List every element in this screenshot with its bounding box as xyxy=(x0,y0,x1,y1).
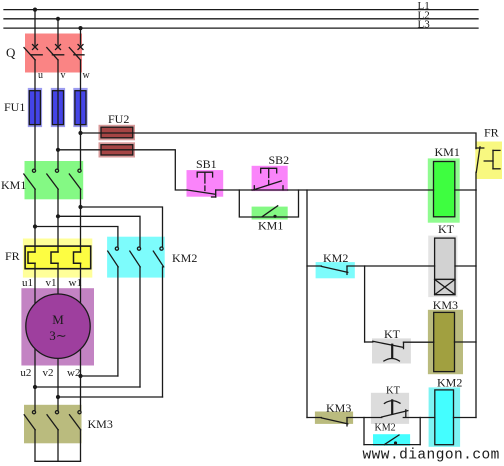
highlight: KM2 power contacts xyxy=(107,237,165,278)
node v to FU2 bottom xyxy=(56,148,60,152)
node u tap row xyxy=(33,224,37,228)
contactor KM1 pole 3 xyxy=(69,169,81,189)
FR heater element 2 xyxy=(51,252,58,263)
svg-text:L3: L3 xyxy=(418,19,431,31)
wire KM2 pole3 down to v2 row xyxy=(162,267,164,397)
contactor KM3 pole 3 xyxy=(70,411,82,430)
highlight: FR contact xyxy=(475,142,502,180)
svg-text:M: M xyxy=(52,312,64,327)
wire u tap to KM2 xyxy=(35,227,118,247)
switch Q pole 3 xyxy=(69,45,83,61)
node L2 tap xyxy=(56,17,60,21)
svg-text:v1: v1 xyxy=(46,277,57,289)
highlight: motor xyxy=(21,288,94,365)
highlight: KM1 coil xyxy=(428,158,460,222)
svg-text:w1: w1 xyxy=(69,277,82,289)
svg-text:KT: KT xyxy=(386,386,401,397)
wire KT NC to KM2 coil xyxy=(403,417,435,419)
wire right rail xyxy=(475,190,477,418)
pushbutton SB1 xyxy=(187,172,216,197)
wire row4 to parallel box xyxy=(347,417,382,419)
svg-text:FR: FR xyxy=(484,126,499,140)
highlight: KT coil xyxy=(428,236,457,298)
node L1 tap xyxy=(33,8,37,12)
contact KM2 NC xyxy=(307,266,348,274)
pushbutton SB2 xyxy=(252,168,288,190)
wire w tap to KM2 xyxy=(81,207,163,247)
wire parallel box bottom xyxy=(364,444,420,446)
wire SB2 to KM1 coil xyxy=(288,189,434,191)
svg-text:3∼: 3∼ xyxy=(49,328,66,343)
wire w2 delta tap xyxy=(81,375,118,377)
wire w FU1 to KM1 xyxy=(80,91,82,169)
switch Q pole 1 xyxy=(24,45,38,61)
wire KM2 pole2 down to u2 row xyxy=(139,267,141,387)
fuse FU1 pole 1 xyxy=(29,91,40,125)
svg-text:KM1: KM1 xyxy=(435,145,460,159)
contactor KM2 pole 3 xyxy=(153,247,163,267)
bus line L2 xyxy=(4,18,478,20)
node v2 delta tap xyxy=(56,395,60,399)
wire KM3 coil to right rail xyxy=(455,341,477,343)
svg-text:KM1: KM1 xyxy=(258,219,283,233)
highlight: SB2 xyxy=(252,166,288,191)
contactor KM2 pole 2 xyxy=(130,247,141,267)
node v tap row xyxy=(56,214,60,218)
wire u Q to FU1 xyxy=(34,60,36,91)
svg-text:u: u xyxy=(38,70,43,81)
wire KM2 coil to right rail xyxy=(454,417,477,419)
svg-text:KM1: KM1 xyxy=(1,178,26,192)
svg-text:SB1: SB1 xyxy=(196,157,217,171)
wire w Q to FU1 xyxy=(80,60,82,91)
wire u2 delta tap xyxy=(35,386,140,388)
wire row2 to KT coil xyxy=(347,265,435,267)
wire u phase top xyxy=(34,10,36,45)
FR heater element 1 xyxy=(28,252,35,263)
node w tap row xyxy=(78,205,82,209)
contact KT NO delayed xyxy=(373,341,404,361)
svg-text:FR: FR xyxy=(5,249,20,263)
svg-text:v: v xyxy=(61,70,66,81)
wire v FU1 to KM1 xyxy=(57,91,59,169)
wire star point bar xyxy=(35,460,81,462)
svg-text:KM2: KM2 xyxy=(437,376,462,390)
highlight: KM2 coil xyxy=(429,387,461,446)
svg-text:www.diangon.com: www.diangon.com xyxy=(363,448,500,464)
highlight: KT NO contact xyxy=(372,338,411,363)
node L3 tap xyxy=(78,26,82,30)
contact KM2 aux NO xyxy=(384,435,399,445)
highlight: KM3 NC contact xyxy=(315,412,353,424)
contactor KM2 pole 1 xyxy=(108,247,119,267)
contactor KM3 pole 2 xyxy=(47,411,59,430)
wire u FU1 to KM1 xyxy=(34,91,36,169)
wire v KM1 to motor xyxy=(57,189,59,252)
wire FU2 bottom to SB1 xyxy=(101,150,187,190)
coil KT delay box xyxy=(435,279,455,294)
svg-text:KM3: KM3 xyxy=(88,417,113,431)
coil KM1 xyxy=(434,162,455,217)
svg-text:w: w xyxy=(83,70,91,81)
wire w KM1 to motor xyxy=(80,189,82,252)
wire w phase top xyxy=(80,28,82,45)
coil KT xyxy=(435,238,455,279)
svg-text:FU2: FU2 xyxy=(108,112,129,126)
wire v phase top xyxy=(57,19,59,45)
svg-text:KM2: KM2 xyxy=(323,251,348,265)
svg-text:KM3: KM3 xyxy=(433,298,458,312)
svg-text:KT: KT xyxy=(384,327,401,341)
svg-text:u2: u2 xyxy=(20,367,31,379)
node w to FU2 top xyxy=(78,131,82,135)
highlight: KM1 aux contact xyxy=(252,207,288,220)
wire v tap to KM2 xyxy=(58,216,140,246)
svg-text:w2: w2 xyxy=(67,367,80,379)
highlight: KM1 power contacts xyxy=(25,161,84,199)
wire v Q to FU1 xyxy=(57,60,59,91)
highlight: FU2 fuse glows xyxy=(99,125,136,141)
fuse FU2 fuse 1 xyxy=(101,127,133,138)
wire FU2 top to FR corner xyxy=(101,133,476,149)
highlight: KM3 power contacts xyxy=(24,405,82,444)
wire row3 left xyxy=(365,341,373,343)
thermal contact FR xyxy=(476,147,500,190)
wire u below KM3 xyxy=(34,430,36,461)
motor M circle xyxy=(26,294,90,358)
coil KM2 xyxy=(435,390,454,445)
wire KM2 pole1 down to w2 row xyxy=(117,267,119,376)
svg-text:KM2: KM2 xyxy=(172,251,197,265)
highlight: Q switch xyxy=(25,34,82,73)
highlight: FU1 fuse glows xyxy=(28,88,42,127)
wire v to FU2 fuse 2 xyxy=(58,149,101,151)
fuse FU1 pole 3 xyxy=(75,91,86,125)
switch Q pole 2 xyxy=(47,45,61,61)
bus line L1 xyxy=(4,9,478,11)
wire w below KM3 xyxy=(80,430,82,461)
highlight: FR heater glow xyxy=(23,239,92,278)
svg-text:KT: KT xyxy=(438,222,455,236)
svg-text:Q: Q xyxy=(6,45,16,60)
wire KM1 aux branch left xyxy=(239,190,298,217)
svg-text:v2: v2 xyxy=(43,367,54,379)
svg-text:u1: u1 xyxy=(22,277,33,289)
highlight: SB1 xyxy=(187,170,224,197)
contactor KM1 pole 1 xyxy=(24,169,36,189)
switch Q linkage dashed xyxy=(31,54,84,56)
contact KT NC delayed xyxy=(382,400,408,417)
fuse FU1 pole 2 xyxy=(52,91,63,125)
wire KM1 coil to FR contact xyxy=(455,189,476,191)
wire u KM1 to motor xyxy=(34,189,36,252)
wire row3 to KM3 coil xyxy=(404,341,434,343)
wire v2 delta tap xyxy=(58,396,163,398)
wire v below KM3 xyxy=(57,430,59,461)
contactor KM1 pole 2 xyxy=(47,169,59,189)
fuse FU2 fuse 2 xyxy=(101,145,133,155)
coil KM3 xyxy=(434,312,455,371)
highlight: KM2 aux contact xyxy=(373,434,410,446)
thermal relay FR heater frame xyxy=(25,246,91,269)
highlight: KM2 NC contact xyxy=(316,262,355,278)
bus line L3 xyxy=(4,27,478,29)
svg-text:FU1: FU1 xyxy=(4,100,25,114)
node u2 delta tap xyxy=(33,385,37,389)
highlight: KM3 coil xyxy=(428,310,463,374)
svg-text:KM3: KM3 xyxy=(326,401,351,415)
svg-text:KM2: KM2 xyxy=(375,423,396,434)
wire parallel box left xyxy=(363,418,365,445)
contact KM3 NC xyxy=(307,418,348,426)
node w2 delta tap xyxy=(78,374,82,378)
highlight: KT NC contact xyxy=(371,393,409,424)
wire w to FU2 fuse 1 xyxy=(81,132,102,134)
FR heater element 3 xyxy=(74,252,81,263)
wire branch row2 to row3 xyxy=(364,266,366,342)
contactor KM3 pole 1 xyxy=(24,411,35,430)
contact KM1 aux xyxy=(262,206,278,218)
wire left rail xyxy=(306,190,308,418)
wire SB1 to SB2 xyxy=(216,189,252,191)
wire parallel box right xyxy=(419,418,421,445)
wire KT coil to right rail xyxy=(455,265,476,267)
svg-text:SB2: SB2 xyxy=(269,153,290,167)
